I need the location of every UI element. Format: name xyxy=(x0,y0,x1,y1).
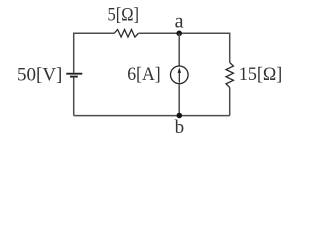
resistor R1 5[Ω] (top, horizontal zigzag) xyxy=(114,30,138,38)
resistor R2 15[Ω] (right branch, vertical zigzag) xyxy=(226,63,233,88)
wire top-right (resistor R1 through node a to top-right corner) xyxy=(138,33,229,62)
svg-text:50[V]: 50[V] xyxy=(17,65,62,86)
svg-text:15[Ω]: 15[Ω] xyxy=(239,64,282,85)
svg-text:6[A]: 6[A] xyxy=(127,64,161,85)
wire bottom (bottom-left corner through node b to bottom-right corner) xyxy=(74,115,230,117)
svg-text:b: b xyxy=(175,117,185,138)
node a junction dot xyxy=(176,31,182,37)
node b junction dot xyxy=(177,113,183,119)
svg-text:5[Ω]: 5[Ω] xyxy=(108,5,140,26)
voltage source E 50[V] (battery, left branch) xyxy=(66,74,82,77)
wire left-bottom (battery bottom to bottom-left corner) xyxy=(73,78,75,116)
wire right-bottom (resistor R2 to bottom-right corner) xyxy=(229,87,231,115)
wire middle-bottom (current source to node b) xyxy=(178,84,180,116)
wire middle-top (node a down to current source) xyxy=(178,33,180,66)
wire top-left (battery top to resistor R1) xyxy=(74,33,115,73)
current source I 6[A] (circle with up arrow) xyxy=(171,66,189,84)
svg-text:a: a xyxy=(175,10,184,32)
